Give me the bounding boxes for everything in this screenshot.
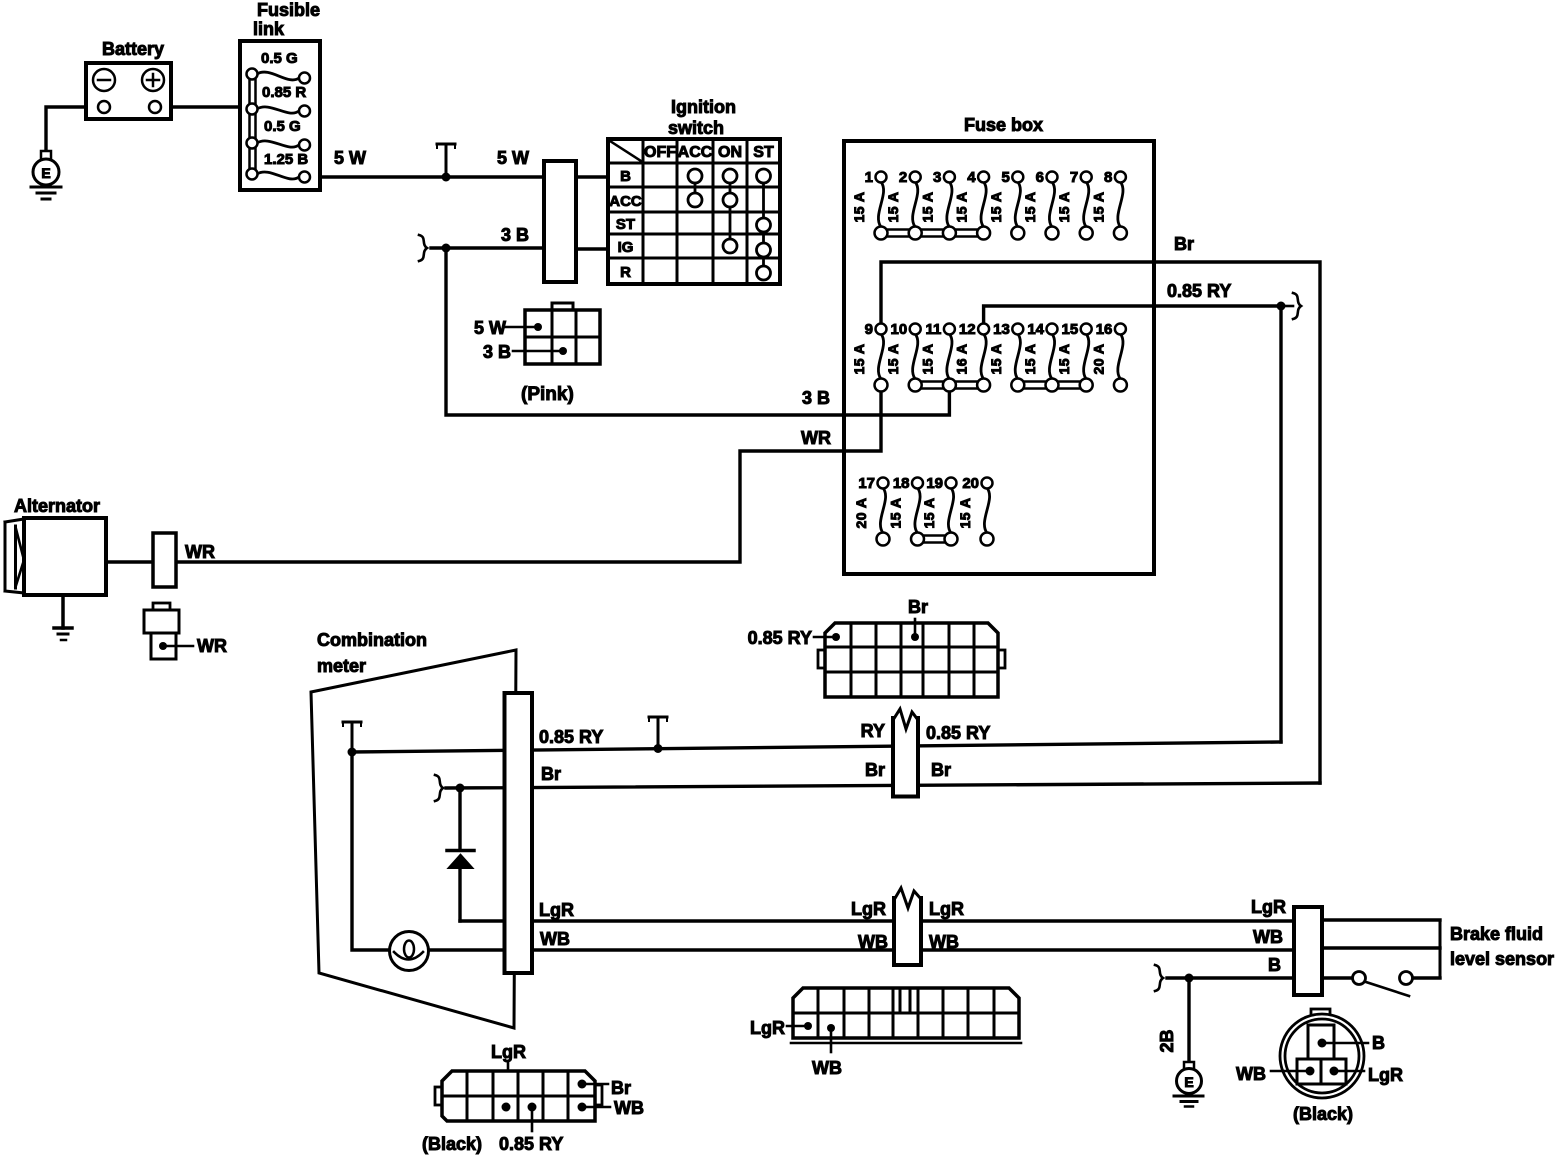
svg-text:LgR: LgR [851,899,886,919]
node 5W junction [437,144,455,182]
svg-text:R: R [620,264,631,281]
svg-text:level sensor: level sensor [1450,949,1554,969]
diode combination meter [447,851,474,869]
svg-text:LgR: LgR [1368,1065,1403,1085]
svg-text:Battery: Battery [102,39,164,59]
svg-text:0.5 G: 0.5 G [261,50,298,67]
svg-text:WB: WB [614,1098,644,1118]
wire sensor right side vertical [1439,920,1442,978]
wire 2B ground drop [1187,978,1190,1062]
svg-text:13: 13 [993,321,1010,338]
svg-text:12: 12 [959,321,976,338]
svg-text:15 A: 15 A [888,497,904,528]
svg-text:(Black): (Black) [422,1134,482,1154]
svg-text:11: 11 [926,321,942,338]
fuses 17-20 row 3 [853,475,994,546]
connector WR alternator [153,533,176,587]
ground E battery [31,151,61,199]
wire battery positive to fusible link [161,105,247,108]
svg-text:8: 8 [1104,169,1112,186]
svg-text:3 B: 3 B [501,225,529,245]
svg-text:2: 2 [899,169,907,186]
svg-text:2B: 2B [1157,1029,1177,1052]
svg-text:16: 16 [1096,321,1113,338]
node 0.85RY junction at meter [343,722,361,757]
svg-text:ACC: ACC [678,144,713,161]
svg-text:1: 1 [865,169,873,186]
svg-text:RY: RY [861,721,885,741]
wire Br fuse 9 to right side vertical [881,262,1320,783]
wire B to sensor connector [1167,976,1294,979]
svg-text:Fuse box: Fuse box [964,115,1043,135]
svg-text:ACC: ACC [609,193,642,210]
wire 3B to ignition connector [431,246,544,249]
svg-text:ST: ST [753,144,774,161]
wire 3B ignition connector to switch IG terminal [576,247,608,250]
connector combination meter [505,693,533,973]
svg-text:15 A: 15 A [1022,343,1038,374]
svg-text:20 A: 20 A [1090,343,1106,374]
svg-text:WR: WR [185,542,215,562]
svg-text:(Black): (Black) [1293,1104,1353,1124]
connector inline LgR/WB [851,888,964,965]
svg-text:5 W: 5 W [474,318,506,338]
wire B pigtail end [1155,965,1163,991]
wire lamp branch down from 0.85RY [352,752,390,950]
svg-text:20 A: 20 A [853,497,869,528]
wire LgR sensor internal [1322,918,1440,921]
node Br junction at diode [456,784,465,793]
svg-text:LgR: LgR [750,1018,785,1038]
svg-text:7: 7 [1070,169,1078,186]
wire Br meter diode line [446,783,1320,788]
ground E 2B [1174,1062,1203,1107]
fusible link [240,0,320,190]
svg-text:B: B [1268,955,1281,975]
svg-text:14: 14 [1027,321,1044,338]
brake fluid level switch [1353,972,1413,997]
svg-text:15 A: 15 A [885,191,901,222]
svg-text:Alternator: Alternator [14,496,100,516]
svg-text:OFF: OFF [644,144,676,161]
svg-text:WB: WB [1253,927,1283,947]
svg-text:15 A: 15 A [1090,191,1106,222]
wire B sensor internal to switch [1322,976,1353,979]
svg-text:3: 3 [933,169,941,186]
wire diode branch [458,788,461,849]
svg-text:Brake fluid: Brake fluid [1450,924,1543,944]
svg-text:ON: ON [718,144,742,161]
svg-text:15 A: 15 A [1056,191,1072,222]
svg-text:15: 15 [1062,321,1079,338]
wire 5W ignition connector to switch B terminal [576,175,608,178]
connector grid LgR/WB long detail [750,988,1021,1078]
svg-text:10: 10 [891,321,908,338]
svg-text:0.85 RY: 0.85 RY [539,727,603,747]
connector grid (Black) detail [422,1042,644,1154]
svg-text:Br: Br [1174,234,1194,254]
wire 0.85RY fuse 12 to right side vertical [984,306,1281,742]
svg-text:15 A: 15 A [988,191,1004,222]
svg-text:19: 19 [926,475,943,492]
svg-text:Br: Br [908,597,928,617]
svg-text:Ignition: Ignition [671,97,736,117]
battery [86,39,171,119]
svg-text:WB: WB [929,932,959,952]
svg-text:Combination: Combination [317,630,427,650]
svg-text:Br: Br [611,1078,631,1098]
wire 0.85RY combination meter lamp feed [352,742,1281,752]
svg-text:15 A: 15 A [919,191,935,222]
svg-text:18: 18 [893,475,910,492]
wire battery negative to ground E [46,107,98,151]
svg-text:link: link [253,19,285,39]
svg-text:15 A: 15 A [954,191,970,222]
wire 5W fusible link to ignition switch [310,175,544,178]
svg-text:15 A: 15 A [851,191,867,222]
svg-text:15 A: 15 A [921,497,937,528]
svg-text:0.85 RY: 0.85 RY [926,723,990,743]
svg-text:5 W: 5 W [497,148,529,168]
connector round (Black) [1236,1009,1403,1124]
svg-text:4: 4 [967,169,976,186]
svg-text:LgR: LgR [929,899,964,919]
svg-text:Br: Br [865,760,885,780]
svg-text:15 A: 15 A [885,343,901,374]
connector brake fluid level sensor [1294,907,1322,995]
svg-text:WR: WR [801,428,831,448]
svg-text:switch: switch [668,118,724,138]
svg-text:1.25 B: 1.25 B [264,151,308,168]
ground alternator [54,595,72,640]
svg-text:LgR: LgR [1251,897,1286,917]
combination meter [311,630,516,1028]
wire WB sensor internal [1322,946,1440,949]
svg-text:ST: ST [616,216,635,233]
svg-text:E: E [41,165,50,181]
connector grid Br/0.85RY detail [748,597,1005,697]
svg-text:3 B: 3 B [483,342,511,362]
node 0.85RY stub junction [1277,302,1286,311]
svg-text:WB: WB [1236,1064,1266,1084]
svg-text:15 A: 15 A [851,343,867,374]
ignition switch table [608,97,780,284]
svg-text:20: 20 [962,475,979,492]
wire LgR meter to brake fluid sensor connector [460,919,1294,922]
svg-text:B: B [620,168,631,185]
svg-text:16 A: 16 A [954,343,970,374]
svg-text:15 A: 15 A [988,343,1004,374]
svg-text:15 A: 15 A [919,343,935,374]
svg-text:Br: Br [931,760,951,780]
svg-text:WR: WR [197,636,227,656]
wire Br pigtail end [435,775,443,801]
svg-text:15 A: 15 A [957,497,973,528]
svg-text:(Pink): (Pink) [521,384,574,405]
svg-text:15 A: 15 A [1056,343,1072,374]
svg-text:IG: IG [618,239,634,256]
svg-text:WB: WB [812,1058,842,1078]
svg-text:E: E [1184,1074,1193,1090]
connector WR spade detail [144,603,227,659]
svg-text:0.85 RY: 0.85 RY [499,1134,563,1154]
svg-text:3 B: 3 B [802,388,830,408]
svg-text:LgR: LgR [491,1042,526,1062]
wire WB lamp to brake fluid sensor connector [428,948,1294,951]
node 3B junction [442,244,451,253]
svg-text:0.85 RY: 0.85 RY [748,628,812,648]
connector ignition switch [544,161,576,282]
svg-text:LgR: LgR [539,900,574,920]
svg-text:WB: WB [858,932,888,952]
svg-text:meter: meter [317,656,366,676]
wire 3B pigtail end [419,235,427,261]
fuses 9-16 row 2 [851,321,1127,392]
connector (Pink) [474,303,600,405]
alternator [5,496,106,595]
wire WR alternator to fuse 9 [106,391,881,562]
svg-text:6: 6 [1036,169,1044,186]
svg-text:Fusible: Fusible [257,0,320,20]
svg-text:0.5 G: 0.5 G [264,118,301,135]
svg-text:0.85 RY: 0.85 RY [1167,281,1231,301]
svg-text:B: B [1372,1033,1385,1053]
node 0.85RY junction right of meter [649,717,667,753]
svg-text:15 A: 15 A [1022,191,1038,222]
svg-text:5 W: 5 W [334,148,366,168]
node B junction [1185,974,1194,983]
svg-text:5: 5 [1001,169,1009,186]
svg-text:WB: WB [540,929,570,949]
svg-text:Br: Br [541,764,561,784]
connector inline RY/0.85RY [861,709,991,797]
lamp warning light [390,932,429,971]
svg-text:9: 9 [865,321,873,338]
svg-text:0.85 R: 0.85 R [262,84,306,101]
svg-text:17: 17 [858,475,875,492]
wire 3B down and across to fuse 11 [446,248,949,415]
fuses 1-8 row 1 [851,169,1127,240]
